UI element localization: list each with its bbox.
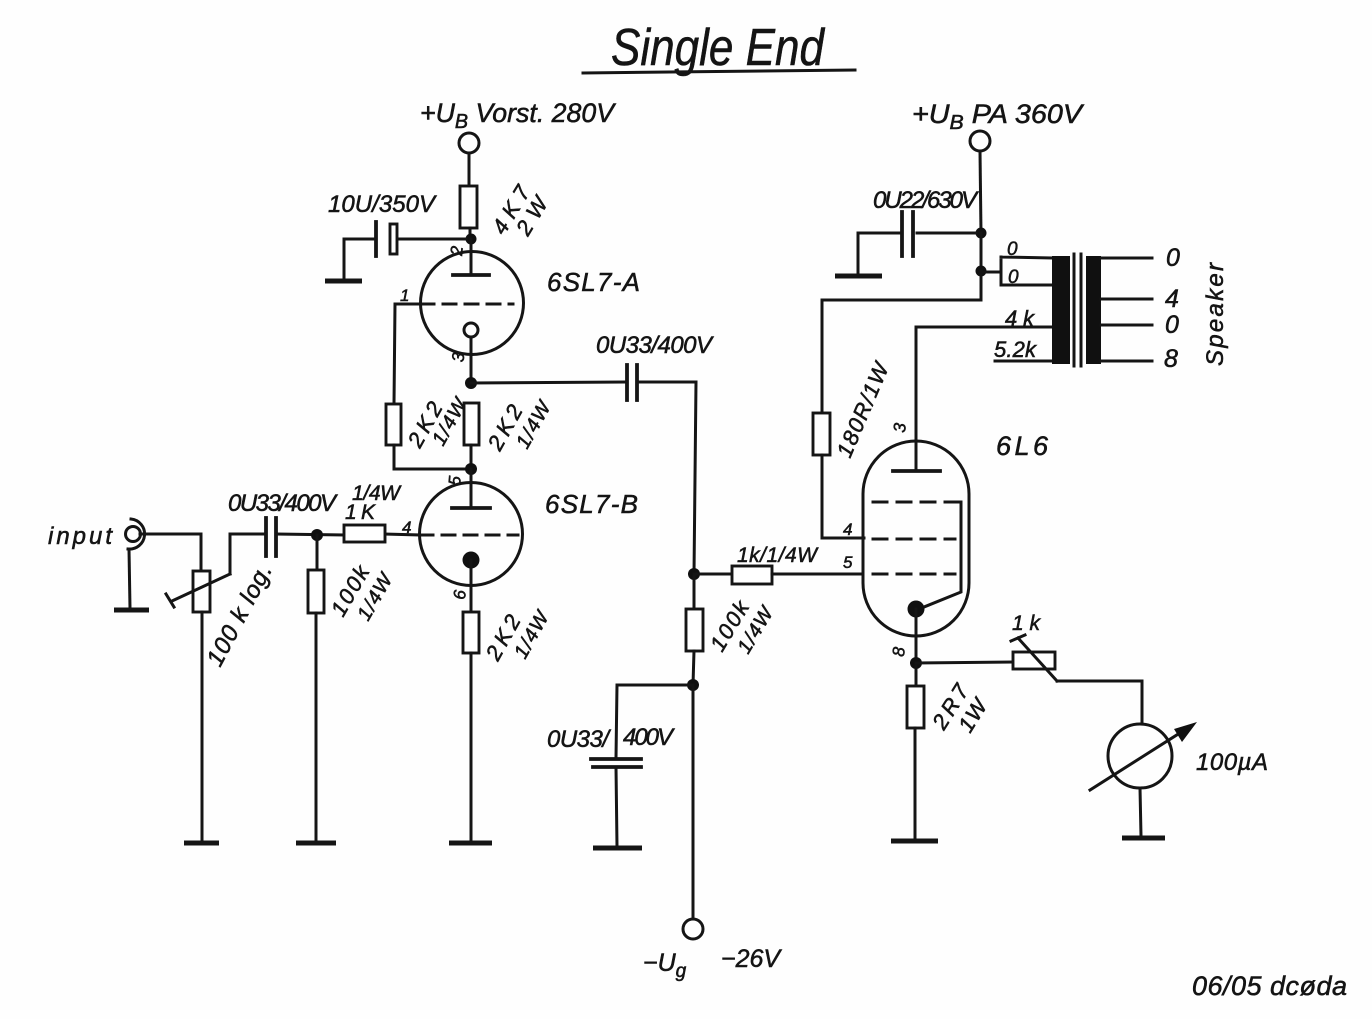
wire bbox=[276, 534, 344, 535]
label -Ug -26V bbox=[643, 945, 782, 982]
svg-text:100µA: 100µA bbox=[1196, 749, 1268, 776]
capacitor 0U22/630V bbox=[902, 212, 913, 256]
wire bbox=[693, 574, 696, 609]
svg-text:8: 8 bbox=[1164, 345, 1178, 373]
svg-text:0U33/: 0U33/ bbox=[547, 726, 611, 753]
label 100k 1/4W bias bbox=[705, 596, 779, 658]
wire pin1 bbox=[394, 304, 421, 404]
ground bbox=[296, 841, 336, 846]
wire pot bottom bbox=[201, 612, 204, 842]
resistor 1k/1/4W grid 6L6 bbox=[732, 566, 772, 584]
ground bbox=[835, 274, 882, 279]
svg-text:0U22/630V: 0U22/630V bbox=[873, 187, 979, 214]
tube 6SL7-B bbox=[420, 483, 523, 613]
transformer output bbox=[1052, 254, 1101, 366]
wire screen feed bbox=[822, 271, 981, 413]
svg-text:0U33/400V: 0U33/400V bbox=[596, 332, 714, 359]
ground bbox=[449, 841, 492, 846]
resistor 2K2 cathode B bbox=[463, 612, 479, 653]
wire wiper riser bbox=[230, 534, 264, 574]
wire bbox=[616, 767, 617, 846]
svg-text:06/05 dcøda: 06/05 dcøda bbox=[1192, 971, 1347, 1001]
svg-text:−26V: −26V bbox=[721, 945, 782, 973]
wire secondary 4 bbox=[1101, 298, 1152, 301]
svg-text:1: 1 bbox=[400, 286, 409, 305]
wire cathode to rheostat bbox=[916, 662, 1013, 663]
wire bbox=[980, 151, 981, 233]
svg-text:6SL7-A: 6SL7-A bbox=[547, 267, 640, 297]
resistor 4K7 bbox=[460, 186, 477, 228]
capacitor 0U33/400V interstage bbox=[627, 365, 637, 400]
svg-text:+UB Vorst. 280V: +UB Vorst. 280V bbox=[420, 98, 617, 133]
title Single End bbox=[583, 19, 855, 77]
svg-text:0: 0 bbox=[1166, 244, 1180, 272]
capacitor 0U33/400V input bbox=[266, 518, 276, 556]
wire bbox=[397, 238, 466, 241]
svg-text:0: 0 bbox=[1008, 267, 1019, 288]
wire bbox=[917, 232, 976, 235]
node grid B bbox=[311, 529, 323, 541]
label 100k 1/4W grid B bbox=[326, 560, 399, 624]
wire bbox=[1140, 788, 1141, 836]
svg-text:5.2k: 5.2k bbox=[994, 337, 1037, 362]
ground bbox=[891, 839, 938, 844]
node plate A supply bbox=[466, 234, 477, 245]
resistor 1K grid stopper bbox=[344, 525, 385, 542]
wire secondary 8 bbox=[1101, 360, 1152, 363]
ground bbox=[325, 279, 362, 284]
label +UB Vorst. 280V bbox=[420, 98, 617, 133]
wire bbox=[470, 653, 473, 842]
node pin5 B bbox=[465, 463, 477, 475]
tube 6L6 bbox=[863, 441, 969, 662]
label 1/4W 1K bbox=[345, 482, 402, 524]
node cathode A out bbox=[465, 377, 477, 389]
wire bbox=[470, 469, 473, 483]
wire secondary 0b bbox=[1101, 324, 1152, 327]
resistor 100k bias bbox=[686, 609, 703, 651]
wire bbox=[1057, 681, 1142, 724]
wire bbox=[692, 685, 695, 919]
node bias cap bbox=[687, 679, 699, 691]
tube 6SL7-A bbox=[421, 239, 524, 383]
terminal +UB Vorst bbox=[459, 133, 479, 153]
capacitor 0U33/400V bias bbox=[591, 759, 641, 767]
svg-text:10U/350V: 10U/350V bbox=[328, 191, 437, 218]
node PA cap bbox=[976, 228, 987, 239]
svg-text:Speaker: Speaker bbox=[1202, 262, 1229, 366]
wire bbox=[980, 233, 983, 271]
svg-text:1k/1/4W: 1k/1/4W bbox=[737, 544, 819, 567]
svg-text:1K: 1K bbox=[345, 501, 376, 524]
ground bbox=[593, 846, 642, 851]
resistor 180R/1W bbox=[813, 413, 830, 455]
ground bbox=[184, 841, 219, 846]
wire bbox=[471, 382, 625, 383]
connector input jack bbox=[126, 519, 145, 549]
wire bbox=[469, 228, 472, 240]
wire 5.2k stub bbox=[995, 360, 1053, 363]
svg-text:400V: 400V bbox=[623, 724, 675, 751]
ground bbox=[1122, 836, 1165, 841]
potentiometer 100k log bbox=[166, 571, 230, 612]
wire plate 6L6 bbox=[916, 327, 1053, 471]
wire bbox=[915, 663, 918, 686]
wire bbox=[140, 534, 201, 571]
wire bbox=[637, 382, 696, 574]
wire secondary 0 bbox=[1101, 257, 1152, 260]
svg-text:0: 0 bbox=[1165, 311, 1179, 339]
svg-text:6SL7-B: 6SL7-B bbox=[545, 489, 638, 519]
wire bbox=[315, 613, 318, 842]
label 0U33/ 400V bbox=[547, 724, 675, 753]
rheostat 1k bbox=[1011, 635, 1057, 681]
resistor 2K2 right bbox=[464, 403, 479, 445]
wire bbox=[772, 573, 863, 576]
node cathode 6L6 bbox=[910, 657, 922, 669]
svg-text:0U33/400V: 0U33/400V bbox=[228, 490, 338, 517]
svg-text:4: 4 bbox=[843, 520, 852, 539]
wire bbox=[822, 455, 864, 538]
node grid 6L6 junction bbox=[688, 568, 700, 580]
node primary tap bbox=[976, 266, 987, 277]
svg-text:+UB PA 360V: +UB PA 360V bbox=[912, 99, 1085, 134]
capacitor 10U/350V bbox=[376, 222, 397, 256]
svg-text:5: 5 bbox=[843, 553, 853, 572]
svg-text:4: 4 bbox=[1165, 285, 1179, 313]
label 2K2 1/4W right bbox=[482, 396, 557, 455]
terminal +UB PA bbox=[970, 131, 990, 151]
resistor 2R7 bbox=[907, 686, 924, 728]
wire bbox=[858, 233, 902, 274]
label 2K2 1/4W left bbox=[402, 393, 473, 452]
svg-text:1/4W: 1/4W bbox=[352, 482, 402, 505]
wire bbox=[129, 549, 130, 608]
wire pin4 bbox=[385, 534, 420, 535]
wire bbox=[693, 651, 694, 685]
resistor 100k grid B bbox=[308, 570, 324, 613]
wire bbox=[694, 573, 732, 576]
wire primary bracket bbox=[981, 257, 1053, 285]
svg-text:0: 0 bbox=[1007, 239, 1018, 260]
label 2K2 1/4W cathode B bbox=[480, 606, 555, 665]
wire bbox=[914, 728, 917, 839]
terminal -Ug bbox=[683, 919, 703, 939]
resistor 2K2 left bbox=[386, 404, 401, 445]
wire bbox=[394, 445, 471, 469]
wire bbox=[468, 153, 471, 186]
wire bbox=[470, 445, 473, 469]
wire bbox=[616, 685, 693, 758]
wire bbox=[316, 535, 319, 570]
label 4K7 2W bbox=[487, 180, 554, 240]
svg-text:6L6: 6L6 bbox=[996, 431, 1049, 461]
label 2R7 1W bbox=[927, 679, 994, 737]
wire bbox=[344, 239, 375, 279]
ground bbox=[114, 608, 149, 613]
meter 100uA bbox=[1090, 722, 1197, 790]
svg-text:Single End: Single End bbox=[611, 19, 826, 77]
